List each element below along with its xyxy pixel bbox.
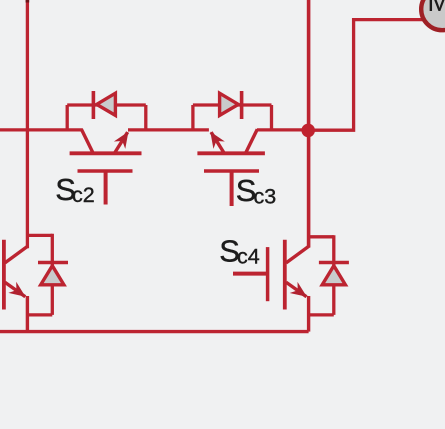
wire: dark cap at top of left rail bbox=[26, 0, 30, 3]
transistor S_c2 (IGBT) bbox=[67, 105, 146, 205]
wire: link from junction up to motor bbox=[309, 20, 425, 131]
wire: centre vertical rail through junction bbox=[307, 0, 311, 248]
diode (anti-parallel with S_c2) bbox=[93, 91, 115, 119]
node: output junction dot bbox=[301, 124, 315, 138]
svg-text:Sc3: Sc3 bbox=[236, 173, 276, 209]
svg-text:Sc4: Sc4 bbox=[219, 234, 259, 269]
wire: left DC rail vertical bbox=[26, 0, 29, 248]
arrow on bottom-left emitter bbox=[8, 282, 29, 302]
transistor S_c3 (IGBT, mirrored) bbox=[193, 105, 272, 206]
wire: bottom rail bbox=[0, 330, 309, 333]
arrow on S_c3 emitter bbox=[205, 128, 225, 149]
wire: top main wire, left segment bbox=[0, 128, 83, 131]
transistor S_c4 (IGBT, vertical) bbox=[233, 235, 334, 331]
motor M bbox=[421, 0, 445, 30]
diode (anti-parallel with S_c4) bbox=[319, 263, 349, 285]
diode (anti-parallel with S_c3) bbox=[220, 91, 242, 119]
svg-text:M: M bbox=[427, 0, 445, 18]
arrow on S_c4 emitter bbox=[290, 282, 311, 302]
wire: top main wire, segment S_c3 to junction bbox=[257, 128, 309, 131]
svg-text:Sc2: Sc2 bbox=[55, 172, 94, 207]
transistor (bottom-left IGBT, partly off-canvas) bbox=[4, 234, 52, 332]
wire: top main wire, segment between S_c2 and S_c3 bbox=[128, 128, 209, 131]
diode (anti-parallel with bottom-left IGBT) bbox=[38, 263, 68, 285]
arrow on S_c2 emitter bbox=[114, 128, 134, 149]
